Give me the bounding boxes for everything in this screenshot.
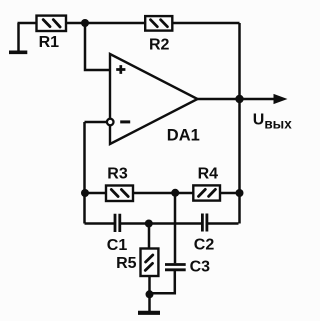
left feedback rail xyxy=(83,122,86,224)
resistor R5 (vertical) xyxy=(141,249,159,277)
wire C1/C2 row xyxy=(85,222,239,225)
wire mid vertical to C3 xyxy=(174,193,177,263)
ground GND1 (top-left) xyxy=(9,23,27,52)
output arrowhead xyxy=(274,94,288,104)
op-amp DA1 triangle xyxy=(110,54,198,144)
resistor R1 xyxy=(37,16,67,31)
junction node A (R1/R2/+ input) xyxy=(81,19,89,27)
wire C3 bottom to R5 lead xyxy=(150,271,175,293)
svg-text:R4: R4 xyxy=(198,166,219,183)
svg-text:R2: R2 xyxy=(149,36,170,53)
wire output xyxy=(198,98,276,101)
junction node left R3 row xyxy=(81,189,89,197)
capacitor C3 plates (horizontal) xyxy=(165,265,186,270)
right vertical rail xyxy=(238,23,241,224)
junction node C row / R5 xyxy=(145,220,153,228)
junction node R5 bottom xyxy=(146,290,154,298)
op-amp minus input sign xyxy=(120,120,130,123)
junction node R3/R4 mid xyxy=(171,189,179,197)
junction node R4 right xyxy=(236,189,244,197)
resistor R3 xyxy=(106,186,133,202)
inverting input bubble xyxy=(107,119,114,126)
wire noninverting input (node A down to +) xyxy=(85,23,109,70)
svg-text:R5: R5 xyxy=(116,255,137,272)
wire R5 bottom lead xyxy=(148,276,151,311)
svg-text:C3: C3 xyxy=(190,258,211,275)
wire R3/R4 row xyxy=(85,192,240,195)
svg-text:R3: R3 xyxy=(107,166,128,183)
op-amp plus input sign xyxy=(116,65,125,74)
capacitor C2 plates xyxy=(202,214,207,232)
capacitor C1 plates xyxy=(115,214,120,232)
wire C-row node down to R5 xyxy=(148,224,151,250)
svg-text:R1: R1 xyxy=(39,34,60,51)
svg-text:C2: C2 xyxy=(194,236,215,253)
ground GND2 (bottom) xyxy=(138,311,160,315)
wire top rail xyxy=(18,22,240,25)
svg-text:DA1: DA1 xyxy=(167,127,200,145)
junction node output xyxy=(235,95,243,103)
svg-text:C1: C1 xyxy=(107,237,128,254)
wire inverting input xyxy=(85,121,107,124)
resistor R4 xyxy=(193,185,220,200)
resistor R2 xyxy=(145,16,172,31)
